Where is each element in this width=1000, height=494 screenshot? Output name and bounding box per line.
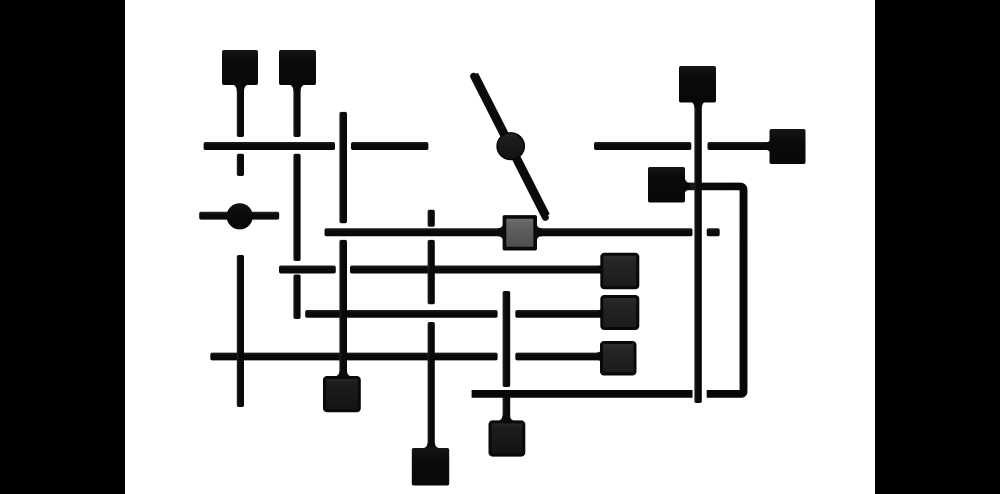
- flare fillet S3 stem: [690, 102, 706, 109]
- stem of square S2 (upper segment): [293, 84, 300, 137]
- square S2: [279, 50, 316, 85]
- vertical wire V3 upper segment (free end, over H5 and H6): [503, 291, 511, 387]
- vertical wire V2 upper segment (top free end to H2 halo): [339, 112, 347, 223]
- square S8: [602, 343, 636, 375]
- vertical wire V2 lower segment (H2 to square S9): [339, 240, 347, 380]
- square S3: [679, 66, 716, 103]
- wire H5 left segment to halo of V3: [305, 310, 497, 318]
- flare fillet S1 stem: [232, 85, 248, 92]
- wire H5 right segment to square S7: [515, 310, 603, 318]
- wire H6 left segment to halo of V3: [210, 353, 497, 361]
- flare fillet S11 stem (top): [423, 443, 440, 448]
- square S10: [490, 422, 524, 455]
- flare fillet S2 stem: [289, 85, 305, 92]
- vertical wire V4 top segment (free end to H2 halo): [428, 210, 435, 227]
- flare fillet S10 stem (top): [498, 416, 515, 421]
- wire H3 right segment into square S4: [708, 142, 771, 150]
- wire H3 left segment: [594, 142, 691, 150]
- square S11: [412, 448, 449, 486]
- left black sidebar: [0, 0, 125, 494]
- white halo where S3 stem crosses wire H7: [693, 389, 707, 400]
- square S9: [325, 378, 360, 411]
- stem of square S3 (down over H3, H2, H7): [694, 101, 701, 403]
- wire H4 left stub (left of vertical V2): [279, 266, 336, 274]
- square S5: [648, 167, 685, 203]
- flare fillet S9 stem (top): [335, 371, 352, 377]
- square S6: [602, 254, 638, 287]
- right black sidebar: [875, 0, 1000, 494]
- wire H1 left segment: [204, 142, 335, 150]
- vertical wire V5 (below junction circle C1): [237, 255, 244, 407]
- flare fillet S6 wire: [597, 262, 603, 277]
- stem of square S1 (upper segment): [237, 84, 244, 137]
- vertical wire V3 stem into square S10: [503, 397, 511, 423]
- square S4: [770, 129, 806, 164]
- diagonal wire: [474, 75, 546, 216]
- gray component square SG on wire H2: [503, 215, 537, 250]
- vertical wire V4 lower segment (H5 to square S11): [428, 322, 435, 452]
- vertical wire V4 middle segment (H2 to H5 halo): [428, 240, 435, 304]
- wire H4 main segment to square S6: [350, 266, 603, 274]
- wire H1 right segment (right of vertical V2): [351, 142, 428, 150]
- stem of square S2 (middle segment between H1 and H4): [293, 154, 300, 261]
- square S7: [602, 297, 638, 329]
- flare fillet SG left wire: [498, 224, 503, 240]
- flare fillet S4 wire: [764, 139, 770, 154]
- junction circle C1: [227, 204, 252, 229]
- stem of square S1 (lower segment below wire H1): [237, 154, 244, 176]
- wire H2 long horizontal (left of S3 stem halo): [325, 228, 693, 236]
- square S1: [222, 50, 258, 85]
- wire bar of junction C1: [199, 212, 279, 220]
- flare fillet SG right wire: [537, 224, 542, 240]
- wire H2 right stub (right of S3 stem): [707, 228, 720, 236]
- wire H6 right segment to square S8: [515, 353, 602, 361]
- flare fillet S5 right wire: [685, 178, 691, 194]
- elbow wire from square S5: right then down, joined with wire H7: [472, 186, 748, 398]
- flare fillet S7 wire: [597, 307, 603, 322]
- stem of square S2 (lower segment below H4): [293, 275, 300, 320]
- junction circle C2 on diagonal: [497, 133, 524, 160]
- flare fillet S8 wire: [597, 349, 603, 365]
